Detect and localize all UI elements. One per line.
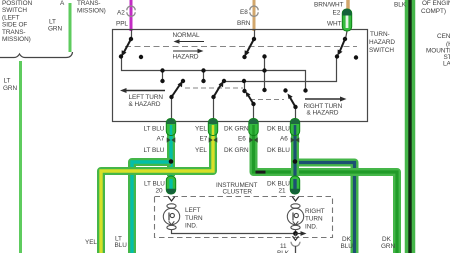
labels wire column LT BLU A7 [144,126,165,155]
label LT GRN below splice [3,77,17,92]
wire LT GRN top vertical from position switch A [69,3,72,52]
wire PPL from A2 into switch box [130,0,133,31]
wire BLK 11 to bottom edge [295,246,297,253]
svg-text:DK: DK [342,236,352,243]
svg-text:SWITCH: SWITCH [369,47,394,54]
label right turn ind [305,208,325,231]
wire internal: BRN stub [254,30,256,40]
wire internal: tie bus to hazard switch contact [224,58,337,82]
label DK GRN bottom [381,236,395,250]
dashed mechanical link top (normal/hazard) [125,46,357,48]
arrow into cluster pin 21 [292,197,298,201]
junction dot DK BLU split [293,159,298,164]
wire LT BLU horizontal branch to left vertical [132,162,171,253]
svg-text:LT BLU: LT BLU [144,126,165,133]
label LT BLU bottom [115,236,128,250]
connector pin 20 pill [166,176,175,194]
wire between lamps to ground exit [172,230,296,234]
wire lamp2 bottom to junction [295,230,297,234]
svg-text:DK GRN: DK GRN [224,126,249,133]
label BLK top [394,2,407,9]
svg-text:BLU: BLU [341,243,354,250]
wire internal: blade pivots down to pills [172,97,296,119]
svg-text:BRN: BRN [237,20,251,27]
svg-text:SWITCH: SWITCH [2,7,27,14]
connector pill A6 at box bottom [290,119,299,136]
instrument cluster dashed box [155,197,333,238]
splice mark on DK GRN wire [256,171,266,174]
svg-text:COMPT): COMPT) [421,8,446,15]
lamp left turn indicator [163,204,179,230]
svg-text:SIDE OF: SIDE OF [2,22,27,29]
connector pin 21 pill [290,176,299,194]
label turn-hazard switch [369,31,395,54]
svg-text:A7: A7 [157,136,165,143]
connector pill E7 at box bottom [208,119,217,136]
svg-text:PPL: PPL [116,21,128,28]
svg-text:E7: E7 [200,136,208,143]
label LT BLU 20 [144,181,165,195]
label left turn & hazard [129,94,164,108]
label A2 PPL [116,10,128,28]
svg-text:OF ENGINE: OF ENGINE [422,0,450,7]
arrow normal position [174,39,205,43]
svg-text:GRN: GRN [381,243,395,250]
svg-text:LEFT: LEFT [185,207,201,214]
svg-text:HAZARD: HAZARD [173,54,199,61]
svg-text:11: 11 [280,243,287,250]
svg-text:(LEFT: (LEFT [2,14,20,21]
wire YEL from pill E7 turning left and down [101,134,213,253]
wire LT BLU vertical from pill A7 to cluster pin 20 [167,134,175,176]
connector arc at cluster exit [291,242,300,247]
switch blade left turn (LT BLU) [172,81,183,97]
label center mounted fragment [426,33,450,67]
connector bowtie E7 [209,137,218,142]
svg-text:TURN: TURN [305,216,323,223]
svg-text:IND.: IND. [185,223,198,230]
wire exit down from junction [293,234,299,241]
switch blade from BRN [245,39,255,57]
svg-text:IND.: IND. [305,223,318,230]
label LT GRN top [48,19,62,33]
label normal [173,32,201,39]
connector A2 inline arcs [127,6,135,16]
svg-text:TURN-: TURN- [370,31,390,38]
svg-text:BRN/WHT: BRN/WHT [314,2,344,9]
wire BLK right vertical full height [405,0,416,253]
splice brace joining LT GRN wires [0,52,73,58]
svg-text:LT BLU: LT BLU [144,181,165,188]
switch blade hazard (DK BLU) [288,94,296,108]
wire DK GRN from pill E6 turning right and down [254,134,398,253]
label hazard [173,54,199,61]
turn-hazard switch box outline [113,30,368,122]
svg-text:TRANS-: TRANS- [77,0,101,7]
svg-text:NORMAL: NORMAL [173,32,201,39]
svg-text:TRANS-: TRANS- [2,29,26,36]
label E8 BRN [237,9,251,27]
connector pill E6 at box bottom [249,119,258,136]
svg-text:YEL: YEL [195,126,207,133]
svg-text:TURN: TURN [185,215,203,222]
arrow hazard position [173,49,204,53]
arrow left turn direction [120,88,165,93]
connector E8 inline arcs [250,6,258,16]
switch blade hazard (DK GRN) [246,92,254,105]
arrow right turn direction [305,97,347,102]
wire LT GRN left vertical below splice brace [19,61,22,253]
arrow into cluster pin 20 [168,197,174,201]
svg-text:DK BLU: DK BLU [267,126,290,133]
dashed mechanical link middle [185,87,243,89]
svg-text:POSITION: POSITION [2,0,33,7]
svg-text:GRN: GRN [48,26,62,33]
wire internal: common bus from normal contact [122,56,306,91]
label YEL bottom [85,239,97,246]
label transmission block right [77,0,106,15]
label position switch block [2,0,33,43]
wire internal: bus stub to right turn contact [203,71,205,82]
svg-text:E8: E8 [240,9,248,16]
label instrument cluster [216,182,258,196]
svg-text:BLU: BLU [115,242,128,249]
wire DK BLU vertical from pill A6 to cluster pin 21 [291,134,299,176]
connector E2 highlighted pill [342,9,351,31]
label DK BLU 21 [267,181,290,195]
svg-text:& HAZARD: & HAZARD [129,101,161,108]
arrow ground bus right [296,231,307,236]
switch blade from WHT [338,39,346,56]
wire internal: PPL stub [131,30,133,40]
svg-text:RIGHT: RIGHT [305,208,325,215]
label engine compt fragment [421,0,450,15]
labels wire column DK GRN E6 [224,126,249,155]
svg-text:A2: A2 [117,10,125,17]
svg-text:DK: DK [382,236,392,243]
wire internal: hazard feed vertical [264,57,266,91]
junction dot LT BLU split [169,159,174,164]
wire DK BLU branch right and down [295,163,355,253]
connector bowtie A6 [291,137,300,142]
switch blade right turn (YEL) [214,81,224,97]
svg-text:E2: E2 [333,10,341,17]
svg-text:LT BLU: LT BLU [144,147,165,154]
svg-text:DK GRN: DK GRN [224,147,249,154]
svg-text:A6: A6 [280,136,288,143]
svg-text:LT: LT [49,19,56,26]
junction dot ground bus [293,231,298,236]
wire BRN/WHT above connector E2 [346,0,350,10]
svg-text:LA: LA [443,61,450,68]
svg-text:DK BLU: DK BLU [267,181,290,188]
switch blade from PPL [122,39,132,57]
svg-text:MISSION): MISSION) [2,36,31,43]
wire internal: WHT stub below E2 pill [346,31,348,39]
svg-text:YEL: YEL [195,147,207,154]
svg-text:DK BLU: DK BLU [267,147,290,154]
labels wire column YEL E7 [195,126,208,155]
svg-text:& HAZARD: & HAZARD [307,110,339,117]
connector pill A7 at box bottom [166,119,175,136]
label right turn & hazard [304,103,343,117]
labels wire column DK BLU A6 [267,126,290,155]
label BRN/WHT E2 WHT [314,2,344,28]
svg-text:WHT: WHT [327,21,342,28]
lamp right turn indicator [287,204,303,230]
svg-text:GRN: GRN [3,85,17,92]
wire internal: stub to dk grn blade contact [244,82,246,92]
svg-text:MISSION): MISSION) [77,8,106,15]
junction dots switch box [119,37,358,109]
label DK BLU bottom [341,236,354,250]
label 11 BLK [277,243,290,253]
label pin A [60,0,65,7]
svg-text:HAZARD: HAZARD [369,39,395,46]
wire BRN from E8 into switch box [253,0,256,31]
svg-text:YEL: YEL [85,239,97,246]
svg-text:CLUSTER: CLUSTER [223,189,253,196]
connector bowtie E6 [249,137,258,142]
svg-text:LT: LT [4,77,11,84]
wire internal: bus stub to left turn contact [162,71,164,82]
svg-text:CENTER: CENTER [437,33,450,40]
svg-text:BLK: BLK [394,2,407,9]
connector bowtie A7 [167,137,176,142]
dashed mechanical link lower right [250,99,284,101]
svg-text:20: 20 [156,188,164,195]
label left turn ind [185,207,203,230]
svg-text:21: 21 [279,188,287,195]
svg-text:E6: E6 [238,136,246,143]
